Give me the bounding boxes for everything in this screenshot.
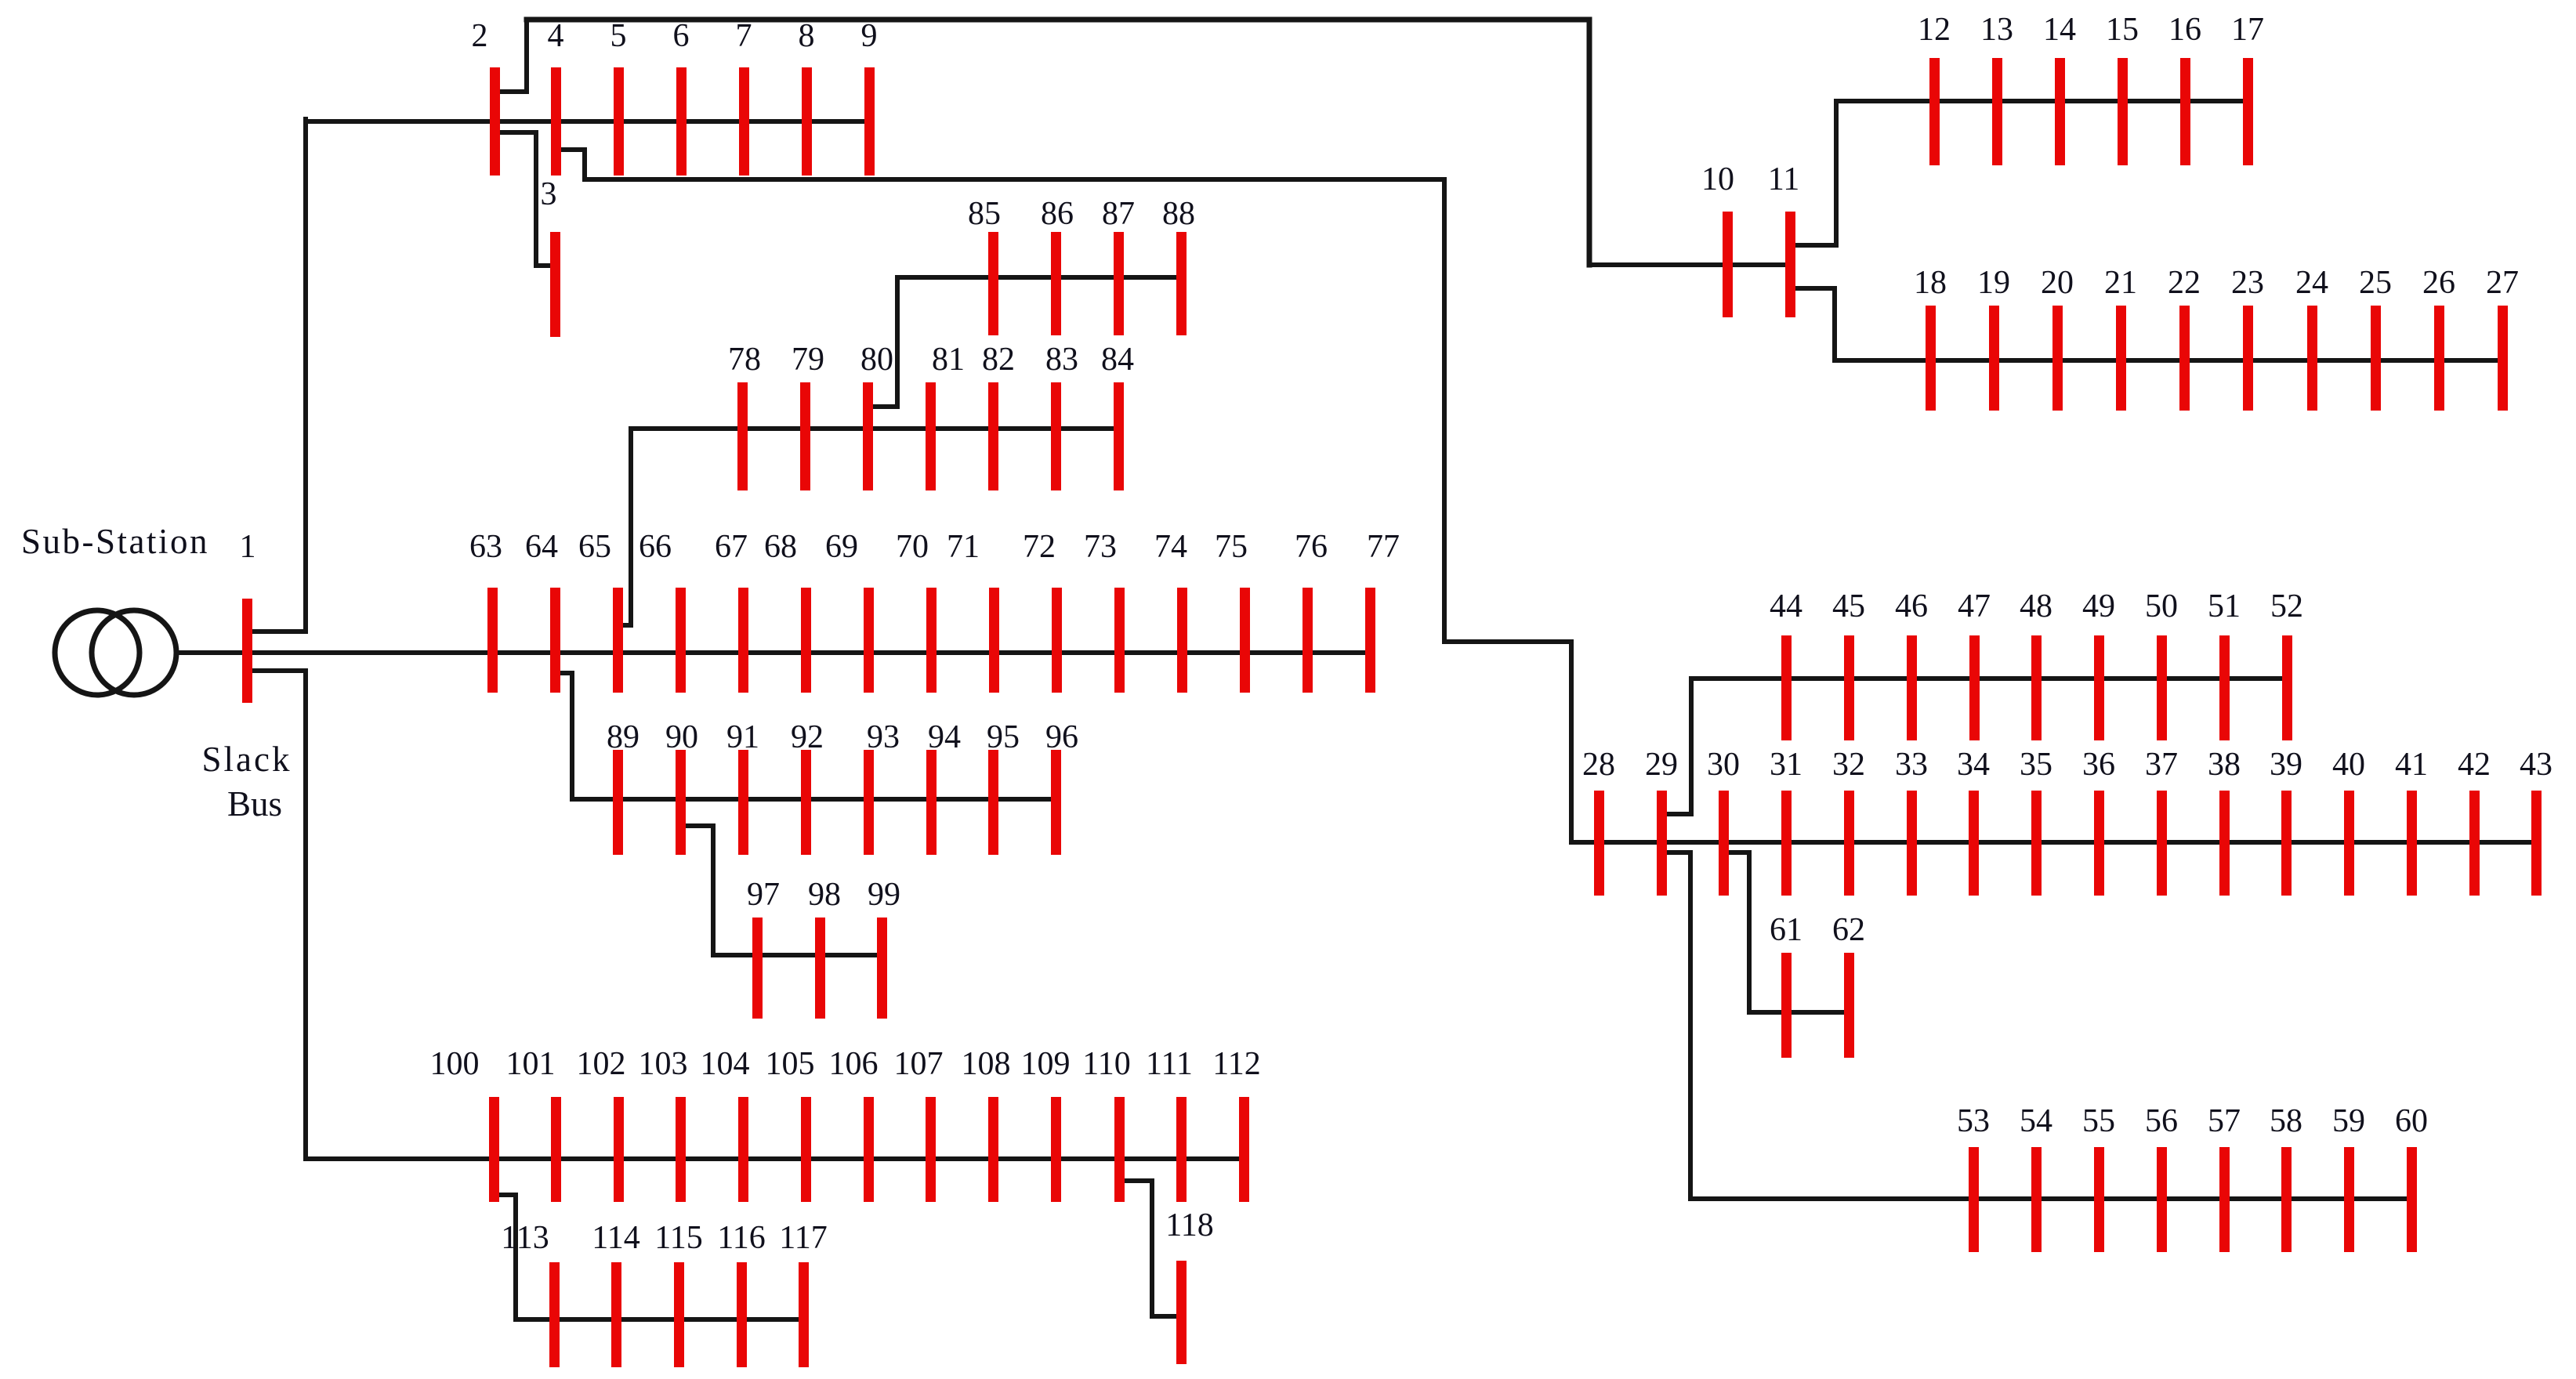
svg-text:95: 95 [987, 719, 1020, 755]
svg-text:13: 13 [1980, 12, 2013, 48]
bus 96 (bar + label) [1045, 719, 1078, 855]
bus 109 (bar + label) [1021, 1046, 1071, 1202]
bus 57 (bar + label) [2208, 1103, 2241, 1252]
bus 75 (bar + label) [1215, 529, 1250, 693]
svg-text:89: 89 [607, 719, 639, 755]
wire feeder 100-112 [306, 1156, 1244, 1161]
svg-text:38: 38 [2208, 747, 2241, 783]
bus 114 (bar + label) [592, 1220, 639, 1367]
wire feeder 89-96 [572, 797, 1056, 802]
svg-text:69: 69 [825, 529, 858, 565]
svg-text:101: 101 [506, 1046, 556, 1082]
svg-text:27: 27 [2486, 265, 2519, 301]
wire drop x2341 [1832, 288, 1837, 360]
svg-text:116: 116 [717, 1220, 765, 1256]
wire long line y229 to x1843 [585, 177, 1444, 182]
svg-text:65: 65 [578, 529, 611, 565]
svg-text:25: 25 [2359, 265, 2392, 301]
svg-text:111: 111 [1146, 1046, 1193, 1082]
svg-text:88: 88 [1162, 196, 1195, 232]
wire feeder 12-17 [1836, 99, 2248, 103]
bus 103 (bar + label) [639, 1046, 688, 1202]
bus 33 (bar + label) [1895, 747, 1928, 896]
svg-text:59: 59 [2332, 1103, 2365, 1139]
bus 63 (bar + label) [469, 529, 502, 693]
bus 85 (bar + label) [968, 196, 1001, 335]
bus 6 (bar + label) [673, 18, 690, 176]
svg-text:41: 41 [2395, 747, 2428, 783]
svg-text:99: 99 [868, 877, 900, 913]
svg-text:73: 73 [1084, 529, 1117, 565]
wire feeder 53-60 [1690, 1196, 2411, 1201]
svg-text:49: 49 [2082, 588, 2115, 624]
wire bus11 lower jog [1790, 286, 1835, 291]
svg-text:100: 100 [430, 1046, 480, 1082]
svg-text:70: 70 [896, 529, 929, 565]
bus 112 (bar + label) [1212, 1046, 1260, 1202]
svg-text:112: 112 [1212, 1046, 1260, 1082]
bus 24 (bar + label) [2295, 265, 2328, 411]
svg-text:66: 66 [639, 529, 672, 565]
bus 5 (bar + label) [610, 18, 627, 176]
bus 41 (bar + label) [2395, 747, 2428, 896]
bus 80 (bar + label) [860, 342, 893, 490]
wire drop x2232 [1747, 852, 1752, 1012]
svg-text:81: 81 [932, 342, 965, 378]
svg-text:31: 31 [1770, 747, 1802, 783]
bus 98 (bar + label) [808, 877, 841, 1019]
wire bus29 upper jog [1661, 812, 1691, 816]
wire feeder 97-99 [713, 953, 882, 957]
bus 32 (bar + label) [1832, 747, 1865, 896]
bus 27 (bar + label) [2486, 265, 2519, 411]
svg-text:56: 56 [2145, 1103, 2178, 1139]
svg-text:84: 84 [1101, 342, 1134, 378]
svg-text:53: 53 [1957, 1103, 1990, 1139]
svg-text:78: 78 [728, 342, 761, 378]
bus 83 (bar + label) [1045, 342, 1078, 490]
svg-text:52: 52 [2270, 588, 2303, 624]
bus 34 (bar + label) [1957, 747, 1990, 896]
wire bus64 jog [555, 671, 572, 675]
bus 58 (bar + label) [2270, 1103, 2302, 1252]
wire riser x2158 [1689, 679, 1694, 814]
bus 50 (bar + label) [2145, 588, 2178, 740]
svg-text:20: 20 [2041, 265, 2074, 301]
svg-text:43: 43 [2520, 747, 2552, 783]
bus 38 (bar + label) [2208, 747, 2241, 896]
svg-text:Slack: Slack [202, 740, 292, 779]
bus 15 (bar + label) [2106, 12, 2139, 165]
bus 67 (bar + label) [715, 529, 748, 693]
bus 14 (bar + label) [2043, 12, 2076, 165]
bus 21 (bar + label) [2104, 265, 2137, 411]
wire left riser upper (x390) [303, 119, 308, 632]
wire feeder 28-43 [1571, 840, 2536, 845]
svg-text:42: 42 [2458, 747, 2491, 783]
svg-text:115: 115 [654, 1220, 702, 1256]
svg-text:34: 34 [1957, 747, 1990, 783]
wire riser x672 [524, 20, 529, 92]
bus 113 (bar + label) [501, 1220, 560, 1367]
wire bus30 jog [1723, 850, 1749, 855]
bus 56 (bar + label) [2145, 1103, 2178, 1252]
bus 11 (bar + label) [1768, 161, 1799, 317]
svg-text:64: 64 [525, 529, 558, 565]
svg-text:82: 82 [982, 342, 1015, 378]
svg-text:4: 4 [548, 18, 564, 54]
svg-text:83: 83 [1045, 342, 1078, 378]
bus 110 (bar + label) [1082, 1046, 1130, 1202]
svg-text:110: 110 [1082, 1046, 1130, 1082]
svg-text:109: 109 [1021, 1046, 1071, 1082]
bus 92 (bar + label) [791, 719, 824, 855]
wire y819 x1843-x2005 [1444, 639, 1571, 644]
wire bus110 jog [1119, 1178, 1152, 1183]
svg-text:108: 108 [962, 1046, 1011, 1082]
svg-text:23: 23 [2231, 265, 2264, 301]
bus 116 (bar + label) [717, 1220, 765, 1367]
bus 107 (bar + label) [894, 1046, 944, 1202]
wire drop x684 to bus3 [534, 132, 538, 266]
bus 73 (bar + label) [1084, 529, 1125, 693]
bus 8 (bar + label) [799, 18, 815, 176]
bus 12 (bar + label) [1918, 12, 1951, 165]
svg-text:61: 61 [1770, 912, 1802, 948]
bus 69 (bar + label) [825, 529, 874, 693]
bus 26 (bar + label) [2422, 265, 2455, 411]
svg-text:22: 22 [2168, 265, 2201, 301]
bus 64 (bar + label) [525, 529, 560, 693]
bus 13 (bar + label) [1980, 12, 2013, 165]
bus 115 (bar + label) [654, 1220, 702, 1367]
svg-text:2: 2 [472, 18, 488, 54]
wire feeder 10-11 [1589, 262, 1790, 267]
bus 93 (bar + label) [864, 719, 900, 855]
svg-text:80: 80 [860, 342, 893, 378]
bus 66 (bar + label) [639, 529, 686, 693]
svg-text:15: 15 [2106, 12, 2139, 48]
svg-text:76: 76 [1295, 529, 1328, 565]
svg-text:91: 91 [726, 719, 759, 755]
svg-text:28: 28 [1582, 747, 1615, 783]
wire feeder 44-52 [1691, 676, 2287, 681]
svg-text:3: 3 [541, 176, 557, 212]
svg-text:85: 85 [968, 196, 1001, 232]
svg-text:24: 24 [2295, 265, 2328, 301]
bus 60 (bar + label) [2395, 1103, 2428, 1252]
bus 47 (bar + label) [1958, 588, 1991, 740]
bus 76 (bar + label) [1295, 529, 1328, 693]
svg-text:26: 26 [2422, 265, 2455, 301]
wire bus100 jog [494, 1193, 516, 1197]
svg-text:87: 87 [1102, 196, 1135, 232]
bus 16 (bar + label) [2168, 12, 2201, 165]
bus 90 (bar + label) [665, 719, 698, 855]
bus 106 (bar + label) [829, 1046, 879, 1202]
svg-text:40: 40 [2332, 747, 2365, 783]
bus 108 (bar + label) [962, 1046, 1011, 1202]
svg-text:10: 10 [1701, 161, 1734, 197]
svg-text:79: 79 [792, 342, 824, 378]
bus 88 (bar + label) [1162, 196, 1195, 335]
svg-text:7: 7 [736, 18, 752, 54]
svg-text:17: 17 [2231, 12, 2264, 48]
svg-text:90: 90 [665, 719, 698, 755]
bus 30 (bar + label) [1707, 747, 1740, 896]
svg-text:77: 77 [1367, 529, 1400, 565]
wire feeder 2-9 [306, 119, 869, 124]
bus 19 (bar + label) [1977, 265, 2010, 411]
svg-text:19: 19 [1977, 265, 2010, 301]
svg-text:12: 12 [1918, 12, 1951, 48]
bus 104 (bar + label) [701, 1046, 750, 1202]
wire drop x2028 [1587, 20, 1592, 265]
bus 87 (bar + label) [1102, 196, 1135, 335]
bus 31 (bar + label) [1770, 747, 1802, 896]
wire riser x805 [629, 429, 633, 625]
svg-text:58: 58 [2270, 1103, 2302, 1139]
bus 54 (bar + label) [2020, 1103, 2052, 1252]
bus 2 (bar + label) [472, 18, 501, 176]
wire drop x910 [711, 826, 716, 955]
svg-text:21: 21 [2104, 265, 2137, 301]
wire jog into bus118 [1152, 1314, 1181, 1319]
svg-text:39: 39 [2270, 747, 2302, 783]
bus 10 (bar + label) [1701, 161, 1734, 317]
svg-text:32: 32 [1832, 747, 1865, 783]
bus 70 (bar + label) [896, 529, 937, 693]
bus 100 (bar + label) [430, 1046, 500, 1202]
bus 39 (bar + label) [2270, 747, 2302, 896]
wire feeder 61-62 [1749, 1010, 1849, 1015]
wire drop x2005 [1569, 642, 1574, 842]
bus 28 (bar + label) [1582, 747, 1615, 896]
bus 117 (bar + label) [779, 1220, 827, 1367]
svg-text:29: 29 [1645, 747, 1678, 783]
svg-text:63: 63 [469, 529, 502, 565]
svg-text:62: 62 [1832, 912, 1865, 948]
wire drop x746 [582, 150, 587, 179]
svg-text:16: 16 [2168, 12, 2201, 48]
bus 45 (bar + label) [1832, 588, 1865, 740]
bus 59 (bar + label) [2332, 1103, 2365, 1252]
bus 62 (bar + label) [1832, 912, 1865, 1058]
wire feeder 78-84 [631, 426, 1118, 431]
svg-text:104: 104 [701, 1046, 750, 1082]
bus 105 (bar + label) [766, 1046, 815, 1202]
bus 37 (bar + label) [2145, 747, 2178, 896]
svg-text:92: 92 [791, 719, 824, 755]
svg-text:106: 106 [829, 1046, 879, 1082]
svg-text:74: 74 [1154, 529, 1187, 565]
svg-text:93: 93 [867, 719, 900, 755]
bus 22 (bar + label) [2168, 265, 2201, 411]
bus 9 (bar + label) [861, 18, 878, 176]
svg-text:72: 72 [1023, 529, 1056, 565]
bus 78 (bar + label) [728, 342, 761, 490]
svg-text:55: 55 [2082, 1103, 2115, 1139]
svg-text:36: 36 [2082, 747, 2115, 783]
bus 89 (bar + label) [607, 719, 639, 855]
wire riser x2343 [1834, 101, 1839, 245]
bus 81 (bar + label) [926, 342, 965, 490]
bus 68 (bar + label) [764, 529, 811, 693]
svg-text:57: 57 [2208, 1103, 2241, 1139]
bus 25 (bar + label) [2359, 265, 2392, 411]
bus 111 (bar + label) [1146, 1046, 1193, 1202]
svg-text:44: 44 [1770, 588, 1802, 624]
bus 46 (bar + label) [1895, 588, 1928, 740]
wire bus4 jog [556, 147, 585, 152]
bus 4 (bar + label) [548, 18, 564, 176]
svg-text:96: 96 [1045, 719, 1078, 755]
wire bus1 upper jog [247, 629, 306, 634]
bus 20 (bar + label) [2041, 265, 2074, 411]
bus 49 (bar + label) [2082, 588, 2115, 740]
svg-text:45: 45 [1832, 588, 1865, 624]
svg-text:9: 9 [861, 18, 878, 54]
wire into bus3 [536, 263, 555, 268]
bus 43 (bar + label) [2520, 747, 2552, 896]
svg-text:48: 48 [2020, 588, 2052, 624]
svg-text:105: 105 [766, 1046, 815, 1082]
svg-text:86: 86 [1041, 196, 1074, 232]
bus 95 (bar + label) [987, 719, 1020, 855]
svg-text:Sub-Station: Sub-Station [21, 522, 209, 561]
svg-text:33: 33 [1895, 747, 1928, 783]
svg-text:37: 37 [2145, 747, 2178, 783]
svg-text:113: 113 [501, 1220, 549, 1256]
svg-text:11: 11 [1768, 161, 1799, 197]
bus 29 (bar + label) [1645, 747, 1678, 896]
wire left riser lower (x390) [303, 671, 308, 1159]
wire bus2-bus3 jog [495, 130, 536, 135]
wire bus80 jog [868, 404, 897, 409]
wire drop x2157 to 53-60 [1688, 852, 1693, 1199]
svg-text:118: 118 [1165, 1207, 1213, 1243]
wire bus2 jog to top line [495, 89, 527, 94]
bus 86 (bar + label) [1041, 196, 1074, 335]
svg-text:71: 71 [947, 529, 980, 565]
bus 52 (bar + label) [2270, 588, 2303, 740]
svg-text:54: 54 [2020, 1103, 2052, 1139]
bus 36 (bar + label) [2082, 747, 2115, 896]
bus 84 (bar + label) [1101, 342, 1134, 490]
svg-text:107: 107 [894, 1046, 944, 1082]
svg-text:51: 51 [2208, 588, 2241, 624]
label Slack Bus [202, 740, 292, 823]
bus 61 (bar + label) [1770, 912, 1802, 1058]
wire feeder 85-88 [897, 275, 1181, 280]
svg-text:8: 8 [799, 18, 815, 54]
wire jog into bus65 [618, 623, 631, 628]
bus 44 (bar + label) [1770, 588, 1802, 740]
svg-text:60: 60 [2395, 1103, 2428, 1139]
bus 79 (bar + label) [792, 342, 824, 490]
wire drop x658 [513, 1195, 518, 1319]
svg-text:35: 35 [2020, 747, 2052, 783]
bus 7 (bar + label) [736, 18, 752, 176]
wire feeder 18-27 [1835, 358, 2502, 363]
wire feeder 113-117 [516, 1317, 803, 1322]
svg-text:97: 97 [747, 877, 780, 913]
svg-text:68: 68 [764, 529, 797, 565]
bus 3 (bar + label) [541, 176, 561, 337]
svg-text:1: 1 [240, 529, 256, 565]
svg-text:30: 30 [1707, 747, 1740, 783]
bus 74 (bar + label) [1154, 529, 1187, 693]
svg-text:102: 102 [577, 1046, 626, 1082]
bus 40 (bar + label) [2332, 747, 2365, 896]
svg-text:103: 103 [639, 1046, 688, 1082]
wire drop x1470 [1150, 1181, 1154, 1316]
bus 118 (bar + label) [1165, 1207, 1213, 1364]
svg-text:5: 5 [610, 18, 627, 54]
svg-text:98: 98 [808, 877, 841, 913]
bus 55 (bar + label) [2082, 1103, 2115, 1252]
bus 48 (bar + label) [2020, 588, 2052, 740]
svg-text:50: 50 [2145, 588, 2178, 624]
svg-text:67: 67 [715, 529, 748, 565]
wire bus29 lower jog [1661, 850, 1690, 855]
bus 35 (bar + label) [2020, 747, 2052, 896]
bus 72 (bar + label) [1023, 529, 1062, 693]
svg-text:75: 75 [1215, 529, 1248, 565]
bus 65 (bar + label) [578, 529, 623, 693]
wire bus1 lower jog [247, 668, 306, 673]
bus 99 (bar + label) [868, 877, 900, 1019]
bus 1 (bar + label) [240, 529, 256, 703]
wire bus90 jog [680, 823, 713, 828]
bus 23 (bar + label) [2231, 265, 2264, 411]
svg-text:47: 47 [1958, 588, 1991, 624]
svg-text:6: 6 [673, 18, 690, 54]
wire main feeder bus1-63..77 [177, 650, 1370, 655]
wire drop x730 [570, 673, 574, 799]
bus 77 (bar + label) [1365, 529, 1400, 693]
wire drop x1843 [1442, 179, 1447, 642]
bus 94 (bar + label) [926, 719, 961, 855]
bus 101 (bar + label) [506, 1046, 562, 1202]
bus 102 (bar + label) [577, 1046, 626, 1202]
wire riser x1145 [895, 277, 900, 407]
svg-text:46: 46 [1895, 588, 1928, 624]
svg-text:117: 117 [779, 1220, 827, 1256]
bus 17 (bar + label) [2231, 12, 2264, 165]
bus 97 (bar + label) [747, 877, 780, 1019]
transformer / sub-station symbol [55, 610, 176, 695]
bus 71 (bar + label) [947, 529, 999, 693]
svg-text:14: 14 [2043, 12, 2076, 48]
wire bus11 upper jog [1790, 243, 1836, 248]
svg-text:94: 94 [928, 719, 961, 755]
wire top line to bus10 [527, 17, 1589, 23]
bus 82 (bar + label) [982, 342, 1015, 490]
bus 91 (bar + label) [726, 719, 759, 855]
bus 42 (bar + label) [2458, 747, 2491, 896]
bus 51 (bar + label) [2208, 588, 2241, 740]
svg-text:18: 18 [1914, 265, 1947, 301]
bus 18 (bar + label) [1914, 265, 1947, 411]
svg-text:114: 114 [592, 1220, 639, 1256]
bus 53 (bar + label) [1957, 1103, 1990, 1252]
svg-text:Bus: Bus [227, 784, 282, 823]
